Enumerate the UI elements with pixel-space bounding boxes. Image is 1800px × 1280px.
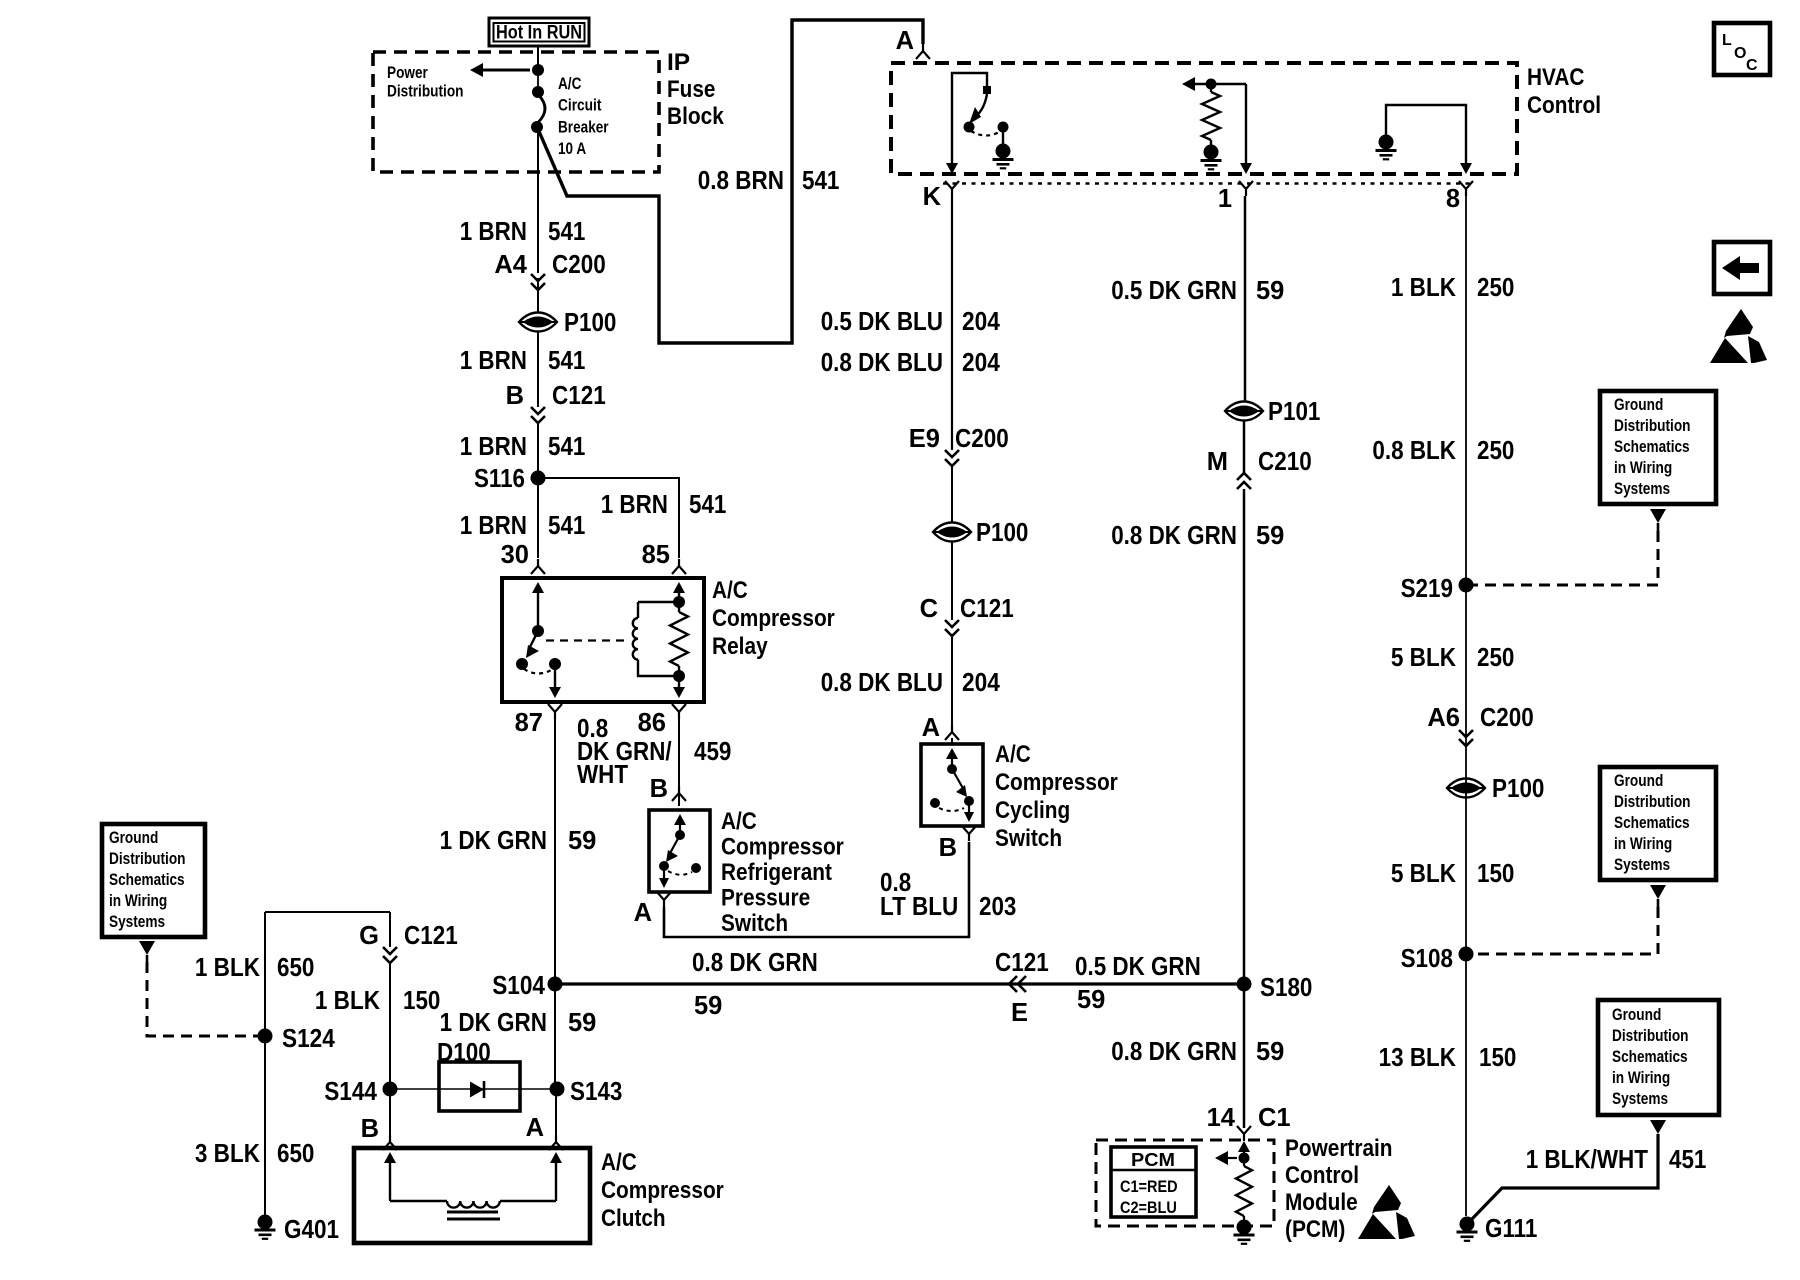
svg-text:C121: C121 bbox=[404, 922, 458, 950]
svg-text:Refrigerant: Refrigerant bbox=[721, 859, 832, 886]
svg-text:1 BLK: 1 BLK bbox=[195, 954, 261, 982]
svg-text:59: 59 bbox=[1256, 277, 1284, 305]
svg-text:A: A bbox=[526, 1114, 544, 1142]
label 1 BRN 541 (branch) bbox=[601, 491, 727, 519]
wire S104 to S180 (DK GRN 59) bbox=[555, 982, 1244, 985]
PCM dashed box: Powertrain Control Module bbox=[1096, 1140, 1274, 1226]
svg-text:541: 541 bbox=[548, 433, 585, 461]
svg-text:0.8 DK BLU: 0.8 DK BLU bbox=[821, 669, 943, 697]
triangle pointer (left box) bbox=[139, 941, 155, 962]
svg-text:Distribution: Distribution bbox=[1612, 1027, 1689, 1045]
cycling switch pin B bbox=[939, 826, 976, 862]
Ground Distribution Schematics box (mid right) bbox=[1600, 767, 1716, 880]
pass-through P100 (left) bbox=[519, 292, 616, 337]
splice S108 bbox=[1401, 945, 1474, 973]
svg-text:S108: S108 bbox=[1401, 945, 1453, 973]
svg-text:in Wiring: in Wiring bbox=[1614, 459, 1672, 477]
label 1 BRN 541 (d) bbox=[460, 512, 586, 540]
wire S104 to S143 to clutch A (1 DK GRN 59) bbox=[555, 984, 556, 1140]
label 459 bbox=[694, 738, 731, 766]
pass-through P100 (right) bbox=[1447, 775, 1544, 803]
svg-text:A: A bbox=[922, 714, 940, 742]
IP Fuse Block dashed box bbox=[373, 52, 659, 172]
wire breaker down (1 BRN 541) bbox=[537, 127, 539, 273]
svg-text:B: B bbox=[361, 1115, 379, 1143]
svg-text:451: 451 bbox=[1669, 1146, 1706, 1174]
svg-text:Pressure: Pressure bbox=[721, 885, 810, 912]
svg-text:O: O bbox=[1734, 45, 1746, 62]
svg-text:S144: S144 bbox=[324, 1078, 378, 1106]
svg-text:1: 1 bbox=[1218, 185, 1232, 213]
wire breaker branch to HVAC pin A (0.8 BRN 541) bbox=[538, 20, 923, 343]
HVAC internal blower resistor arrow bbox=[1182, 77, 1208, 91]
triangle pointer (bottom right box) bbox=[1650, 1120, 1666, 1134]
wire G401 riser (BLK 650) bbox=[265, 912, 390, 1216]
label 13 BLK 150 bbox=[1379, 1044, 1517, 1072]
svg-text:0.8 DK BLU: 0.8 DK BLU bbox=[821, 349, 943, 377]
svg-text:A/C: A/C bbox=[995, 741, 1031, 768]
pressure switch pin B bbox=[650, 775, 686, 806]
svg-text:B: B bbox=[939, 834, 957, 862]
label 3 BLK 650 bbox=[195, 1140, 315, 1168]
svg-text:PCM: PCM bbox=[1131, 1150, 1175, 1170]
wire relay 87 to S104 (1 DK GRN 59) bbox=[554, 719, 556, 984]
LOC reference icon bbox=[1714, 23, 1770, 75]
svg-text:1 BLK: 1 BLK bbox=[315, 987, 381, 1015]
label 59 (S104 run) bbox=[694, 992, 722, 1020]
splice S180 bbox=[1237, 974, 1313, 1002]
PCM connector id box bbox=[1111, 1147, 1196, 1217]
relay output to pin 87 bbox=[549, 664, 561, 698]
PCM input arrow bbox=[1238, 1141, 1250, 1155]
wire HVAC 8 down (1 BLK 250) bbox=[1465, 196, 1467, 1216]
svg-text:Clutch: Clutch bbox=[601, 1205, 666, 1232]
wire pressure A to cycling B (0.8 LT BLU 203) bbox=[664, 842, 969, 937]
svg-text:5 BLK: 5 BLK bbox=[1391, 644, 1457, 672]
svg-text:in Wiring: in Wiring bbox=[109, 892, 167, 910]
svg-text:Switch: Switch bbox=[995, 825, 1062, 852]
wire HVAC K down (DK BLU 204) bbox=[951, 196, 953, 450]
svg-text:Switch: Switch bbox=[721, 910, 788, 937]
HVAC switch output arrow to pin K bbox=[946, 84, 958, 174]
label Power Distribution bbox=[387, 64, 464, 101]
svg-text:P100: P100 bbox=[976, 519, 1028, 547]
svg-text:150: 150 bbox=[1477, 860, 1514, 888]
label 0.5 DK BLU 204 bbox=[821, 308, 1001, 336]
svg-text:A6: A6 bbox=[1427, 704, 1460, 732]
svg-text:85: 85 bbox=[642, 541, 670, 569]
svg-text:Module: Module bbox=[1285, 1189, 1358, 1216]
relay switch contact NO bbox=[516, 658, 561, 674]
svg-text:A/C: A/C bbox=[601, 1149, 637, 1176]
label 0.5 DK GRN 59 bbox=[1111, 277, 1284, 305]
svg-text:459: 459 bbox=[694, 738, 731, 766]
svg-text:P100: P100 bbox=[1492, 775, 1544, 803]
svg-text:Schematics: Schematics bbox=[1614, 814, 1690, 832]
svg-text:0.5 DK GRN: 0.5 DK GRN bbox=[1075, 953, 1201, 981]
label 1 BRN 541 (c) bbox=[460, 433, 586, 461]
wire relay 86 to pressure switch (0.8 DK GRN/WHT 459) bbox=[678, 719, 680, 790]
relay switch common (pin 30) bbox=[532, 582, 544, 637]
left-arrow navigation icon bbox=[1714, 242, 1770, 294]
svg-text:541: 541 bbox=[548, 218, 585, 246]
svg-text:1 BLK/WHT: 1 BLK/WHT bbox=[1526, 1146, 1649, 1174]
connector C121 pin C bbox=[920, 595, 1014, 636]
pass-through P101 bbox=[1225, 398, 1320, 426]
label 0.8 BRN bbox=[698, 167, 784, 195]
svg-text:Schematics: Schematics bbox=[1612, 1048, 1688, 1066]
switch SW2 box: A/C Compressor Cycling Switch bbox=[921, 744, 983, 826]
splice S104 bbox=[492, 972, 562, 1000]
label IP Fuse Block bbox=[667, 49, 724, 130]
svg-text:Schematics: Schematics bbox=[109, 871, 185, 889]
svg-text:E: E bbox=[1011, 999, 1028, 1027]
svg-text:C200: C200 bbox=[955, 425, 1009, 453]
svg-text:HVAC: HVAC bbox=[1527, 64, 1585, 91]
svg-text:14: 14 bbox=[1207, 1104, 1236, 1132]
svg-text:650: 650 bbox=[277, 1140, 314, 1168]
svg-text:5 BLK: 5 BLK bbox=[1391, 860, 1457, 888]
label 0.8 DK BLU 204 (a) bbox=[821, 349, 1001, 377]
svg-text:S219: S219 bbox=[1401, 575, 1453, 603]
clutch box: A/C Compressor Clutch bbox=[354, 1148, 590, 1243]
clutch pin B bbox=[361, 1115, 397, 1150]
dashed link box to S219 bbox=[1473, 531, 1658, 585]
wire 1 BRN 541 upper bbox=[537, 66, 539, 311]
svg-text:541: 541 bbox=[548, 347, 585, 375]
wire from Hot In RUN into fuse block bbox=[537, 46, 539, 66]
svg-text:0.8 DK GRN: 0.8 DK GRN bbox=[1111, 1038, 1237, 1066]
PCM internal node bbox=[1215, 1151, 1250, 1165]
svg-text:K: K bbox=[923, 183, 942, 211]
relay pin 85 internal arrow bbox=[673, 582, 685, 598]
relay pin 86 internal arrow bbox=[673, 676, 685, 698]
svg-text:IP: IP bbox=[667, 49, 690, 76]
svg-text:G: G bbox=[359, 922, 379, 950]
label 0.8 DK GRN 59 (lower) bbox=[1111, 1038, 1284, 1066]
svg-text:C: C bbox=[920, 595, 938, 623]
svg-text:C121: C121 bbox=[995, 949, 1049, 977]
svg-text:G401: G401 bbox=[284, 1216, 339, 1244]
svg-text:0.8 DK GRN: 0.8 DK GRN bbox=[692, 949, 818, 977]
svg-text:1 BRN: 1 BRN bbox=[460, 218, 527, 246]
svg-text:Block: Block bbox=[667, 103, 724, 130]
svg-text:C200: C200 bbox=[552, 251, 606, 279]
svg-text:Hot In RUN: Hot In RUN bbox=[496, 23, 582, 44]
cycling switch internals bbox=[930, 748, 974, 822]
label 1 BLK/WHT 451 bbox=[1526, 1146, 1707, 1174]
HVAC internal ground (switch) bbox=[993, 144, 1014, 169]
svg-text:C1: C1 bbox=[1258, 1104, 1291, 1132]
pressure switch internals bbox=[659, 814, 701, 888]
label 1 BLK 250 bbox=[1391, 274, 1515, 302]
label A/C Circuit Breaker 10 A bbox=[558, 75, 609, 158]
svg-text:59: 59 bbox=[568, 827, 596, 855]
label 1 BLK 150 bbox=[315, 987, 441, 1015]
arrow to Power Distribution bbox=[470, 63, 544, 77]
svg-text:Powertrain: Powertrain bbox=[1285, 1135, 1393, 1162]
label 1 DK GRN 59 (clutch) bbox=[440, 1009, 597, 1037]
label Powertrain Control Module (PCM) bbox=[1285, 1135, 1393, 1243]
Ground Distribution Schematics box (bottom right) bbox=[1598, 1000, 1719, 1115]
svg-text:0.8 BRN: 0.8 BRN bbox=[698, 167, 784, 195]
svg-text:Compressor: Compressor bbox=[712, 605, 835, 632]
svg-text:1 DK GRN: 1 DK GRN bbox=[440, 1009, 547, 1037]
svg-text:P101: P101 bbox=[1268, 398, 1320, 426]
connector A into HVAC control bbox=[896, 27, 930, 59]
svg-text:Systems: Systems bbox=[1614, 480, 1670, 498]
relay pin 87 bbox=[515, 704, 562, 737]
label 0.8 LT BLU bbox=[880, 869, 958, 921]
svg-text:P100: P100 bbox=[564, 309, 616, 337]
dashed link box to S108 bbox=[1473, 907, 1658, 954]
svg-text:250: 250 bbox=[1477, 437, 1514, 465]
svg-text:S143: S143 bbox=[570, 1078, 622, 1106]
connector C121 pin E bbox=[995, 949, 1049, 1027]
connector C1 pin 14 bbox=[1207, 1104, 1291, 1141]
svg-text:150: 150 bbox=[403, 987, 440, 1015]
label 1 DK GRN 59 (relay87) bbox=[440, 827, 597, 855]
svg-text:C: C bbox=[1746, 57, 1758, 74]
svg-text:Ground: Ground bbox=[1614, 396, 1663, 414]
svg-text:Compressor: Compressor bbox=[601, 1177, 724, 1204]
svg-text:204: 204 bbox=[962, 669, 1001, 697]
svg-text:Distribution: Distribution bbox=[109, 850, 186, 868]
svg-text:1 BRN: 1 BRN bbox=[601, 491, 668, 519]
clutch core bars bbox=[447, 1212, 500, 1219]
connector C121 pin B bbox=[506, 382, 606, 423]
ground G401 bbox=[255, 1215, 340, 1245]
diode D100 symbol bbox=[470, 1081, 484, 1098]
dashed link box to S124 bbox=[147, 962, 258, 1036]
svg-text:650: 650 bbox=[277, 954, 314, 982]
svg-text:1 BLK: 1 BLK bbox=[1391, 274, 1457, 302]
label 1 BRN 541 (b) bbox=[460, 347, 586, 375]
svg-text:86: 86 bbox=[638, 709, 666, 737]
svg-text:C121: C121 bbox=[552, 382, 606, 410]
splice S219 bbox=[1401, 575, 1474, 603]
HVAC resistor top node bbox=[1206, 79, 1247, 90]
circuit breaker CB: A/C Circuit Breaker 10 A bbox=[531, 70, 545, 133]
svg-text:8: 8 bbox=[1446, 185, 1460, 213]
wire S180 to PCM (0.8 DK GRN 59) bbox=[1243, 984, 1246, 1128]
HVAC internal resistor bbox=[1202, 84, 1220, 145]
svg-text:S104: S104 bbox=[492, 972, 546, 1000]
Ground Distribution Schematics box (top right) bbox=[1600, 391, 1716, 504]
svg-text:0.8 BLK: 0.8 BLK bbox=[1372, 437, 1456, 465]
svg-text:250: 250 bbox=[1477, 274, 1514, 302]
svg-text:C200: C200 bbox=[1480, 704, 1534, 732]
wire S144 to clutch B bbox=[389, 1089, 391, 1140]
connector C210 pin M bbox=[1207, 420, 1312, 489]
svg-text:204: 204 bbox=[962, 349, 1001, 377]
clutch coil L1 bbox=[384, 1152, 562, 1208]
wire K segment 5 (0.8 DK BLU 204) bbox=[951, 637, 953, 729]
svg-text:Breaker: Breaker bbox=[558, 118, 609, 136]
connector pin 1 bbox=[1218, 181, 1253, 213]
svg-text:204: 204 bbox=[962, 308, 1001, 336]
wire HVAC 1 down (0.5 DK GRN 59) bbox=[1244, 196, 1247, 402]
svg-text:Distribution: Distribution bbox=[1614, 417, 1691, 435]
svg-text:541: 541 bbox=[548, 512, 585, 540]
svg-text:(PCM): (PCM) bbox=[1285, 1216, 1345, 1243]
svg-text:in Wiring: in Wiring bbox=[1612, 1069, 1670, 1087]
svg-text:1 BRN: 1 BRN bbox=[460, 433, 527, 461]
label 0.8 DK GRN/ WHT bbox=[577, 715, 672, 789]
svg-text:0.8 DK GRN: 0.8 DK GRN bbox=[1111, 522, 1237, 550]
label A/C Compressor Refrigerant Pressure Switch bbox=[721, 808, 844, 937]
svg-text:A/C: A/C bbox=[721, 808, 757, 835]
label A/C Compressor Cycling Switch bbox=[995, 741, 1118, 852]
svg-text:S116: S116 bbox=[474, 465, 525, 493]
svg-text:0.5 DK BLU: 0.5 DK BLU bbox=[821, 308, 943, 336]
svg-text:Ground: Ground bbox=[1612, 1006, 1661, 1024]
HVAC internal switch (fan/AC request) bbox=[952, 73, 1009, 144]
svg-text:G111: G111 bbox=[1485, 1215, 1537, 1243]
svg-text:1 DK GRN: 1 DK GRN bbox=[440, 827, 547, 855]
svg-text:Control: Control bbox=[1285, 1162, 1359, 1189]
svg-text:87: 87 bbox=[515, 709, 543, 737]
svg-text:250: 250 bbox=[1477, 644, 1514, 672]
label 541 (0.8 BRN circuit) bbox=[802, 167, 839, 195]
label HVAC Control bbox=[1527, 64, 1601, 119]
svg-text:Systems: Systems bbox=[109, 913, 165, 931]
svg-text:59: 59 bbox=[568, 1009, 596, 1037]
svg-text:Systems: Systems bbox=[1614, 856, 1670, 874]
splice S143 bbox=[550, 1078, 623, 1106]
triangle pointer (mid right box) bbox=[1650, 885, 1666, 907]
svg-text:D100: D100 bbox=[437, 1039, 491, 1067]
relay actuation dashed link bbox=[546, 639, 628, 641]
HVAC internal ground (pin 8 circuit) bbox=[1376, 105, 1473, 174]
HVAC Control dashed box bbox=[891, 63, 1517, 174]
svg-text:541: 541 bbox=[689, 491, 726, 519]
svg-text:Power: Power bbox=[387, 64, 428, 82]
svg-text:0.5 DK GRN: 0.5 DK GRN bbox=[1111, 277, 1237, 305]
wire to S116 (1 BRN 541) bbox=[537, 424, 539, 478]
label 5 BLK 250 bbox=[1391, 644, 1515, 672]
svg-text:Ground: Ground bbox=[109, 829, 158, 847]
svg-text:E9: E9 bbox=[909, 425, 940, 453]
label 5 BLK 150 bbox=[1391, 860, 1515, 888]
svg-text:A/C: A/C bbox=[558, 75, 582, 93]
svg-text:Relay: Relay bbox=[712, 633, 768, 660]
triangle pointer (top right box) bbox=[1650, 509, 1666, 531]
svg-text:Systems: Systems bbox=[1612, 1090, 1668, 1108]
connector pin 8 bbox=[1446, 181, 1473, 213]
wire K segment 4 bbox=[951, 541, 953, 620]
svg-text:Distribution: Distribution bbox=[387, 83, 464, 101]
svg-text:WHT: WHT bbox=[577, 761, 628, 789]
svg-text:C2=BLU: C2=BLU bbox=[1120, 1199, 1177, 1217]
wire K segment 3 bbox=[951, 467, 953, 523]
svg-text:150: 150 bbox=[1479, 1044, 1516, 1072]
connector C200 pin A6 bbox=[1427, 704, 1533, 746]
wire S116 to relay pin 30 bbox=[537, 478, 539, 558]
HVAC connector face dotted line bbox=[943, 182, 1472, 185]
cycling switch pin A bbox=[922, 714, 959, 744]
svg-text:Fuse: Fuse bbox=[667, 76, 715, 103]
connector pin K bbox=[923, 181, 959, 211]
wire S144 to S143 (diode branch) bbox=[390, 1088, 557, 1090]
label 0.8 DK GRN (S104 run) bbox=[692, 949, 818, 977]
svg-text:541: 541 bbox=[802, 167, 839, 195]
HVAC internal ground (resistor) bbox=[1201, 145, 1222, 170]
svg-text:Distribution: Distribution bbox=[1614, 793, 1691, 811]
relay U1 box: A/C Compressor Relay bbox=[502, 578, 704, 702]
relay pin 85 bbox=[642, 541, 686, 574]
wire C210 to S180 (0.8 DK GRN 59) bbox=[1243, 489, 1246, 984]
svg-text:in Wiring: in Wiring bbox=[1614, 835, 1672, 853]
svg-text:M: M bbox=[1207, 448, 1228, 476]
svg-text:C1=RED: C1=RED bbox=[1120, 1178, 1178, 1196]
splice S116 bbox=[474, 465, 546, 493]
connector C200 pin E9 bbox=[909, 425, 1009, 466]
connector C121 pin G bbox=[359, 922, 458, 963]
svg-text:203: 203 bbox=[979, 893, 1016, 921]
splice S124 bbox=[258, 1025, 336, 1053]
svg-text:A: A bbox=[634, 899, 652, 927]
label A/C Compressor Clutch bbox=[601, 1149, 724, 1232]
svg-text:C210: C210 bbox=[1258, 448, 1312, 476]
wire C121 G to S144 (1 BLK 150) bbox=[389, 912, 391, 1089]
label 0.8 DK GRN 59 (upper) bbox=[1111, 522, 1284, 550]
svg-text:S124: S124 bbox=[282, 1025, 336, 1053]
switch SW1 box: A/C Compressor Refrigerant Pressure Switch bbox=[649, 810, 710, 892]
svg-text:59: 59 bbox=[1256, 522, 1284, 550]
svg-text:1 BRN: 1 BRN bbox=[460, 347, 527, 375]
svg-text:C121: C121 bbox=[960, 595, 1014, 623]
svg-text:30: 30 bbox=[501, 541, 529, 569]
label A/C Compressor Relay bbox=[712, 577, 835, 660]
label 0.8 BLK 250 bbox=[1372, 437, 1514, 465]
label 1 BLK 650 bbox=[195, 954, 315, 982]
relay switch arm bbox=[526, 631, 539, 658]
pressure switch pin A bbox=[634, 892, 671, 927]
label 0.5 DK GRN (to S180) bbox=[1075, 953, 1201, 981]
svg-text:Cycling: Cycling bbox=[995, 797, 1070, 824]
svg-text:Compressor: Compressor bbox=[721, 834, 844, 861]
pass-through P100 (middle) bbox=[933, 519, 1028, 547]
svg-text:3 BLK: 3 BLK bbox=[195, 1140, 261, 1168]
svg-text:LT BLU: LT BLU bbox=[880, 893, 958, 921]
svg-text:Compressor: Compressor bbox=[995, 769, 1118, 796]
label 1 BRN 541 (a) bbox=[460, 218, 586, 246]
node Hot In RUN tag bbox=[489, 18, 589, 46]
Ground Distribution Schematics box (left) bbox=[102, 824, 205, 937]
svg-text:59: 59 bbox=[694, 992, 722, 1020]
svg-text:B: B bbox=[506, 382, 524, 410]
svg-text:13 BLK: 13 BLK bbox=[1379, 1044, 1457, 1072]
ESD symbol near PCM bbox=[1358, 1185, 1415, 1239]
svg-text:L: L bbox=[1722, 32, 1732, 49]
svg-text:Ground: Ground bbox=[1614, 772, 1663, 790]
svg-text:1 BRN: 1 BRN bbox=[460, 512, 527, 540]
svg-text:A4: A4 bbox=[494, 251, 527, 279]
PCM internal resistor bbox=[1236, 1158, 1252, 1220]
splice S144 bbox=[324, 1078, 397, 1106]
wire below P100 (1 BRN 541) bbox=[537, 331, 539, 407]
svg-text:10 A: 10 A bbox=[558, 140, 586, 158]
HVAC wire to pin 1 bbox=[1240, 84, 1252, 174]
svg-text:A/C: A/C bbox=[712, 577, 748, 604]
clutch pin A bbox=[526, 1114, 563, 1150]
relay coil bbox=[633, 602, 679, 676]
svg-text:B: B bbox=[650, 775, 668, 803]
svg-text:Circuit: Circuit bbox=[558, 97, 602, 115]
ESD symbol (top right) bbox=[1710, 309, 1767, 363]
svg-text:59: 59 bbox=[1077, 986, 1105, 1014]
